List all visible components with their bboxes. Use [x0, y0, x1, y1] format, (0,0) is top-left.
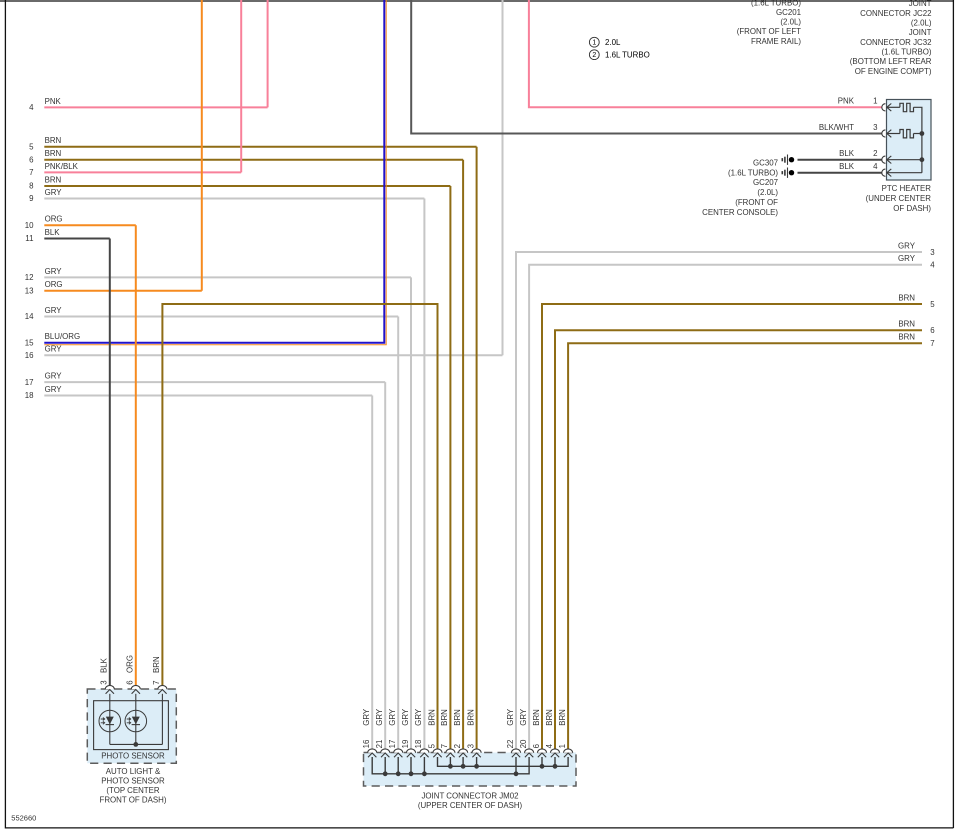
JM02 pin 3 internal shaft [476, 757, 478, 766]
photodiode D2 [125, 710, 147, 732]
svg-text:5: 5 [930, 300, 935, 309]
junction JM02 pin 7 on bus [448, 764, 453, 769]
terminal JM02 pin 17 [394, 749, 403, 757]
wire left pin 13 ORG horizontal [44, 290, 202, 292]
svg-text:GRY: GRY [375, 708, 384, 726]
svg-text:BRN: BRN [152, 656, 161, 673]
JM02 pin 6 internal shaft [541, 757, 543, 766]
svg-text:10: 10 [25, 221, 34, 230]
svg-text:(BOTTOM LEFT REAR: (BOTTOM LEFT REAR [850, 57, 932, 66]
svg-text:19: 19 [401, 739, 410, 748]
wire 15 orange stripe [44, 0, 386, 345]
svg-text:GRY: GRY [898, 254, 916, 263]
svg-text:GRY: GRY [388, 708, 397, 726]
svg-text:PNK: PNK [45, 97, 62, 106]
svg-text:JOINT: JOINT [909, 0, 932, 8]
wire BRN photo sensor pin7 to JM02 pin5 [162, 304, 437, 749]
svg-text:(FRONT OF LEFT: (FRONT OF LEFT [737, 27, 801, 36]
junction PTC bus pin3 [920, 131, 925, 136]
wire left pin 9 GRY horizontal [44, 198, 424, 200]
svg-text:BRN: BRN [45, 175, 62, 184]
svg-text:13: 13 [25, 286, 34, 295]
svg-text:BLU/ORG: BLU/ORG [45, 332, 81, 341]
svg-text:22: 22 [506, 740, 515, 749]
PTC pin2 internal lead [887, 159, 922, 161]
wire PNK/BLK pin7 riser to top [240, 0, 242, 172]
svg-text:6: 6 [930, 326, 935, 335]
svg-text:5: 5 [427, 743, 436, 748]
terminal JM02 pin 16 [368, 749, 377, 757]
photo sensor internal bus [110, 743, 163, 745]
svg-text:BLK/WHT: BLK/WHT [819, 123, 854, 132]
wire GRY pin18 drop to JM02 pin16 [371, 396, 373, 749]
wire ORG pin13 riser to top [201, 0, 203, 291]
wire BLK/WHT from top to PTC heater pin3 [411, 0, 882, 134]
svg-text:FRONT OF DASH): FRONT OF DASH) [100, 795, 167, 804]
wire GRY pin16 riser to top [502, 0, 504, 355]
junction JM02 pin 21 on bus [383, 771, 388, 776]
svg-text:GRY: GRY [414, 708, 423, 726]
junction JM02 pin 6 on bus [540, 764, 545, 769]
wire right pin 5 BRN to JM02 pin6 [542, 304, 922, 749]
photo sensor pin6 internal lead [135, 694, 137, 745]
svg-text:(2.0L): (2.0L) [757, 188, 778, 197]
svg-text:18: 18 [414, 739, 423, 748]
svg-text:7: 7 [440, 744, 449, 748]
wire GRY pin14 drop to JM02 pin17 [397, 317, 399, 749]
svg-text:JOINT CONNECTOR JM02: JOINT CONNECTOR JM02 [421, 791, 518, 800]
JM02 pin 19 internal shaft [410, 757, 412, 774]
JM02 pin 7 internal shaft [449, 757, 451, 766]
wire left pin 12 GRY horizontal [44, 276, 411, 278]
legend engine variants [589, 37, 621, 47]
svg-text:ORG: ORG [45, 280, 63, 289]
terminal photo sensor pin6 [131, 685, 140, 693]
svg-text:3: 3 [100, 680, 109, 685]
svg-text:PTC HEATER: PTC HEATER [882, 184, 932, 193]
wire left pin 6 BRN horizontal [44, 159, 463, 161]
wire BRN pin6 drop to JM02 pin2 [462, 160, 464, 749]
terminal JM02 pin 20 [525, 749, 534, 757]
svg-text:GC207: GC207 [753, 178, 778, 187]
svg-text:1.6L TURBO: 1.6L TURBO [605, 51, 650, 60]
svg-text:GRY: GRY [506, 708, 515, 726]
svg-text:1: 1 [873, 97, 877, 106]
photo sensor dashed box (auto light &amp; photo sensor) [87, 689, 176, 763]
svg-text:(2.0L): (2.0L) [780, 18, 801, 27]
svg-text:GRY: GRY [45, 372, 63, 381]
wire left pin 5 BRN horizontal [44, 146, 476, 148]
svg-text:4: 4 [873, 162, 878, 171]
terminal JM02 pin 2 [459, 749, 468, 757]
svg-text:OF ENGINE COMPT): OF ENGINE COMPT) [855, 67, 932, 76]
junction JM02 pin 22 on bus [514, 771, 519, 776]
svg-text:6: 6 [126, 680, 135, 685]
svg-text:GRY: GRY [45, 385, 63, 394]
PTC pin3 internal lead [887, 133, 900, 135]
svg-text:BRN: BRN [453, 709, 462, 726]
svg-text:PNK: PNK [838, 97, 855, 106]
terminal PTC pin3 [882, 130, 892, 138]
terminal JM02 pin 6 [537, 749, 546, 757]
svg-text:(FRONT OF: (FRONT OF [735, 198, 778, 207]
wire BRN pin5 drop to JM02 pin3 [476, 147, 478, 749]
wire right pin 3 GRY to JM02 pin22 [516, 252, 922, 749]
terminal PTC pin1 [882, 104, 892, 112]
wire left pin 15 BLU/ORG horizontal [44, 0, 384, 343]
svg-text:GRY: GRY [898, 241, 916, 250]
wire GRY pin9 drop to JM02 pin18 [423, 199, 425, 749]
svg-text:BRN: BRN [532, 709, 541, 726]
svg-text:4: 4 [29, 103, 34, 112]
wire left pin 17 GRY horizontal [44, 381, 385, 383]
wire right pin 4 GRY to JM02 pin20 [529, 265, 922, 749]
svg-text:14: 14 [25, 312, 34, 321]
terminal JM02 pin 1 [564, 749, 573, 757]
svg-text:GC201: GC201 [776, 8, 801, 17]
svg-text:BRN: BRN [558, 709, 567, 726]
svg-text:(1.6L TURBO): (1.6L TURBO) [882, 48, 932, 57]
svg-text:17: 17 [25, 378, 34, 387]
heater element pin1 [900, 103, 914, 111]
svg-text:15: 15 [25, 339, 34, 348]
photodiode D1 [99, 710, 121, 732]
wire right pin 7 BRN to JM02 pin1 [568, 343, 922, 748]
svg-text:GRY: GRY [45, 267, 63, 276]
junction PTC bus pin2 [920, 157, 925, 162]
JM02 pin 21 internal shaft [384, 757, 386, 774]
svg-text:CENTER CONSOLE): CENTER CONSOLE) [702, 208, 778, 217]
junction JM02 pin 18 on bus [422, 771, 427, 776]
junction JM02 pin 19 on bus [409, 771, 414, 776]
wire left pin 4 PNK horizontal [44, 106, 267, 108]
svg-text:ORG: ORG [126, 655, 135, 673]
svg-text:(1.6L TURBO): (1.6L TURBO) [751, 0, 801, 7]
svg-text:11: 11 [25, 234, 33, 243]
svg-text:16: 16 [362, 739, 371, 748]
svg-text:1: 1 [558, 744, 567, 748]
wire GRY pin17 drop to JM02 pin21 [384, 382, 386, 748]
terminal JM02 pin 7 [446, 749, 455, 757]
JM02 pin 4 internal shaft [554, 757, 556, 766]
terminal JM02 pin 21 [381, 749, 390, 757]
svg-text:2.0L: 2.0L [605, 38, 621, 47]
JM02 pin 17 internal shaft [397, 757, 399, 774]
svg-text:GRY: GRY [45, 188, 63, 197]
svg-text:PNK/BLK: PNK/BLK [45, 162, 79, 171]
wire GRY pin12 drop to JM02 pin19 [410, 277, 412, 748]
junction JM02 pin 4 on bus [553, 764, 558, 769]
photo sensor inner box [94, 701, 169, 750]
terminal JM02 pin 4 [550, 749, 559, 757]
svg-text:BRN: BRN [898, 320, 915, 329]
svg-text:(UNDER CENTER: (UNDER CENTER [866, 194, 932, 203]
heater element pin3 [900, 130, 914, 138]
svg-text:4: 4 [930, 261, 935, 270]
wire PNK pin4 riser to top [267, 0, 269, 107]
wire PNK from top to PTC heater pin1 [529, 0, 882, 107]
svg-text:GRY: GRY [45, 306, 63, 315]
svg-text:BRN: BRN [898, 293, 915, 302]
terminal JM02 pin 19 [406, 749, 415, 757]
ground GC307/GC207 splice upper [782, 155, 794, 165]
JM02 pin 18 internal shaft [423, 757, 425, 774]
svg-text:12: 12 [25, 273, 34, 282]
terminal PTC pin4 [882, 169, 891, 177]
svg-text:PHOTO SENSOR: PHOTO SENSOR [101, 751, 165, 760]
svg-text:BLK: BLK [839, 162, 855, 171]
svg-text:GRY: GRY [362, 708, 371, 726]
junction photo sensor bus [133, 742, 138, 747]
svg-text:BLK: BLK [100, 657, 109, 673]
wire left pin 16 GRY horizontal [44, 354, 502, 356]
wire BLK ground to PTC pin4 [798, 172, 883, 174]
wire left pin 18 GRY horizontal [44, 395, 372, 397]
svg-text:FRAME RAIL): FRAME RAIL) [751, 37, 801, 46]
svg-text:OF DASH): OF DASH) [893, 204, 931, 213]
svg-text:BRN: BRN [466, 709, 475, 726]
svg-text:7: 7 [930, 339, 934, 348]
svg-text:9: 9 [29, 194, 34, 203]
svg-text:1: 1 [592, 40, 596, 47]
svg-text:20: 20 [519, 739, 528, 748]
PTC pin3 lead to bus [914, 133, 922, 135]
junction JM02 pin 17 on bus [396, 771, 401, 776]
svg-text:BRN: BRN [545, 709, 554, 726]
terminal JM02 pin 5 [433, 749, 442, 757]
svg-text:3: 3 [930, 248, 935, 257]
svg-text:(TOP CENTER: (TOP CENTER [106, 786, 159, 795]
svg-text:ORG: ORG [45, 215, 63, 224]
photo sensor pin3 internal lead [109, 694, 111, 745]
svg-text:4: 4 [545, 743, 554, 748]
JM02 pin 2 internal shaft [462, 757, 464, 766]
svg-text:AUTO LIGHT &: AUTO LIGHT & [106, 767, 161, 776]
svg-text:16: 16 [25, 351, 34, 360]
svg-text:7: 7 [152, 680, 161, 684]
svg-text:CONNECTOR JC22: CONNECTOR JC22 [860, 9, 931, 18]
svg-text:6: 6 [29, 155, 34, 164]
svg-text:BRN: BRN [45, 149, 62, 158]
ground GC307/GC207 splice lower [782, 168, 794, 178]
wire BLK ground to PTC pin2 [798, 159, 883, 161]
terminal JM02 pin 18 [420, 749, 429, 757]
terminal JM02 pin 22 [511, 749, 520, 757]
svg-text:PHOTO SENSOR: PHOTO SENSOR [101, 776, 165, 785]
joint connector JM02 box [364, 753, 577, 787]
terminal photo sensor pin7 [158, 685, 167, 693]
svg-text:8: 8 [29, 182, 34, 191]
svg-text:GRY: GRY [401, 708, 410, 726]
svg-text:2: 2 [873, 149, 877, 158]
svg-text:JOINT: JOINT [909, 28, 932, 37]
svg-text:5: 5 [29, 142, 34, 151]
svg-text:3: 3 [873, 123, 878, 132]
JM02 BRN bus [438, 757, 569, 766]
svg-text:2: 2 [453, 744, 462, 748]
wire left pin 11 BLK horizontal [44, 238, 110, 240]
wire ORG pin10 drop to photo sensor pin6 [135, 225, 137, 685]
svg-text:CONNECTOR JC32: CONNECTOR JC32 [860, 38, 931, 47]
svg-text:BRN: BRN [440, 709, 449, 726]
PTC pin4 internal lead [887, 172, 922, 174]
svg-text:552660: 552660 [11, 813, 36, 822]
svg-text:(2.0L): (2.0L) [911, 19, 932, 28]
svg-text:6: 6 [532, 743, 541, 748]
JM02 GRY bus [372, 757, 529, 774]
PTC internal bus vertical [914, 107, 922, 172]
svg-text:GRY: GRY [45, 345, 63, 354]
svg-text:2: 2 [592, 52, 596, 59]
svg-text:21: 21 [375, 740, 384, 749]
wire left pin 7 PNK/BLK horizontal [44, 171, 241, 173]
svg-text:BRN: BRN [45, 136, 62, 145]
svg-text:BRN: BRN [427, 709, 436, 726]
svg-text:(1.6L TURBO): (1.6L TURBO) [728, 168, 778, 177]
svg-text:(UPPER CENTER OF DASH): (UPPER CENTER OF DASH) [418, 801, 523, 810]
svg-text:BRN: BRN [898, 333, 915, 342]
wire BLK pin11 drop to photo sensor pin3 [109, 239, 111, 686]
svg-text:BLK: BLK [839, 149, 855, 158]
terminal JM02 pin 3 [472, 749, 481, 757]
wire BRN pin8 drop to JM02 pin7 [449, 186, 451, 749]
junction JM02 pin 2 on bus [461, 764, 466, 769]
svg-text:BLK: BLK [45, 228, 61, 237]
svg-text:GRY: GRY [519, 708, 528, 726]
terminal photo sensor pin3 [105, 685, 114, 693]
PTC pin1 internal lead [887, 106, 900, 108]
svg-text:7: 7 [29, 168, 33, 177]
wire right pin 6 BRN to JM02 pin4 [555, 330, 922, 748]
junction JM02 pin 3 on bus [474, 764, 479, 769]
svg-text:3: 3 [466, 743, 475, 748]
svg-text:17: 17 [388, 740, 397, 749]
wire left pin 14 GRY horizontal [44, 316, 398, 318]
wire left pin 10 ORG horizontal [44, 224, 136, 226]
wire left pin 8 BRN horizontal [44, 185, 450, 187]
PTC heater box [887, 100, 932, 181]
svg-text:GC307: GC307 [753, 158, 778, 167]
terminal PTC pin2 [882, 156, 891, 164]
photo sensor pin7 internal lead [161, 694, 163, 745]
svg-text:18: 18 [25, 391, 34, 400]
JM02 pin 22 internal shaft [515, 757, 517, 774]
